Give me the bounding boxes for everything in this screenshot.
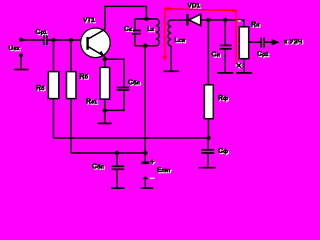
- capacitor Сбп: [112, 166, 125, 188]
- wire: Сбл bottom branch: [105, 91, 124, 111]
- red annotation: right vertical (to Rн ground): [232, 8, 237, 12]
- wire: Сбл top branch: [105, 59, 124, 87]
- ground (Rн): [236, 72, 252, 74]
- label Uвх: [9, 45, 22, 53]
- wire: supply feed (tank bottom to rail2): [144, 46, 146, 153]
- svg-text:Сн: Сн: [212, 52, 220, 59]
- ground (emitter): [98, 122, 113, 124]
- resistor Rн: [239, 27, 248, 59]
- label Rэ1: [86, 99, 98, 107]
- label Rб: [36, 85, 46, 93]
- svg-text:Rб: Rб: [36, 85, 45, 92]
- red annotation: horizontal arrow over VD1: [164, 7, 236, 11]
- node: tank bottom: [143, 44, 147, 48]
- label Сбл: [128, 80, 141, 88]
- svg-text:VD1: VD1: [188, 3, 201, 10]
- node: detector / Rф: [206, 18, 210, 22]
- label Сбп: [92, 164, 105, 172]
- svg-text:Rн: Rн: [251, 22, 259, 29]
- wire: Rн bottom lead: [243, 59, 245, 73]
- svg-text:Lк: Lк: [147, 26, 154, 33]
- svg-text:Rэ1: Rэ1: [86, 99, 97, 106]
- node: Сбп on rail2: [115, 151, 119, 166]
- label Rн: [251, 22, 260, 30]
- resistor R2 (Rб2): [67, 72, 77, 99]
- svg-text:Lсв: Lсв: [175, 37, 186, 44]
- arrow marker at red path end: [237, 63, 242, 67]
- wire: Cp1 to base: [48, 39, 88, 41]
- input terminal (bottom): [19, 53, 23, 69]
- label к УЗЧ: [284, 39, 304, 47]
- resistor Rф: [204, 85, 213, 119]
- svg-text:Епит: Епит: [157, 167, 171, 174]
- label Lк: [147, 26, 155, 34]
- wire: collector to top rail to tank top: [105, 6, 147, 29]
- svg-text:Сбп: Сбп: [92, 164, 104, 171]
- capacitor Ср2: [261, 38, 264, 48]
- label Сн: [212, 52, 221, 60]
- label Cp1: [36, 29, 48, 37]
- diode VD1: [186, 14, 201, 26]
- svg-text:к УЗЧ: к УЗЧ: [284, 39, 303, 46]
- svg-text:Rб: Rб: [80, 74, 89, 81]
- capacitor Ск: [132, 19, 141, 46]
- node: emitter bottom: [103, 99, 107, 123]
- svg-text:VT1: VT1: [83, 17, 95, 24]
- inductor Lсв: [168, 20, 171, 46]
- label Ск: [124, 26, 133, 34]
- svg-text:Ск: Ск: [124, 26, 132, 33]
- capacitor Cp1: [44, 35, 47, 45]
- wire: Lсв bottom lead: [170, 46, 172, 71]
- node: rail1 / Сф: [206, 136, 210, 140]
- resistor R1 (Rб): [48, 72, 58, 99]
- label Eпит: [157, 167, 172, 175]
- node: Cp1 / R1 junction: [51, 38, 55, 42]
- label VT1: [83, 17, 96, 25]
- label Сф: [218, 148, 229, 156]
- wire: down to Rф: [207, 20, 209, 85]
- capacitor Сф: [201, 138, 214, 168]
- node: battery / rail2: [143, 151, 147, 155]
- wire: to output arrow: [265, 41, 272, 43]
- ground (Сн): [217, 72, 233, 74]
- node: R2 junction: [69, 38, 73, 42]
- label VD1: [188, 3, 202, 11]
- capacitor Сн: [220, 20, 232, 73]
- label Ср2: [257, 51, 269, 59]
- capacitor Сбл: [116, 88, 129, 91]
- wire: R1 top lead: [53, 40, 55, 72]
- wire: tank bottom: [135, 45, 157, 47]
- node: Сн: [223, 18, 227, 22]
- label Lсв: [175, 37, 187, 45]
- ground (input): [14, 69, 29, 71]
- svg-text:Сф: Сф: [218, 148, 228, 155]
- wire: rail2 (to battery +): [71, 152, 145, 154]
- resistor Rэ1: [100, 67, 110, 99]
- wire: tank top: [135, 18, 156, 20]
- node: emitter: [103, 57, 107, 68]
- svg-text:Uвх: Uвх: [9, 45, 21, 52]
- wire: diode to Rн top: [201, 20, 244, 27]
- ground (Сбп): [111, 187, 125, 189]
- ground (Сф): [199, 167, 216, 169]
- red annotation: left vertical arrow (into tank): [162, 9, 167, 61]
- wire: Rф bottom to rail1: [208, 119, 210, 138]
- wire: R2 bottom lead to rail2: [70, 99, 72, 153]
- wire: input to Cp1: [21, 39, 43, 41]
- minus mark (detector output polarity): [238, 20, 241, 22]
- svg-text:+: +: [150, 157, 155, 166]
- input terminal (top): [19, 38, 23, 42]
- wire: Lсв top to diode: [171, 19, 186, 21]
- svg-text:Сбл: Сбл: [128, 80, 140, 87]
- ground (battery): [141, 187, 154, 189]
- wire: rail1 (to Rф bottom): [54, 137, 209, 139]
- ground (Lсв): [164, 70, 180, 72]
- wire: R1 bottom lead to rail1: [53, 99, 55, 138]
- label Rф: [218, 95, 229, 103]
- transistor VT1: [81, 28, 111, 58]
- svg-text:Ср1: Ср1: [36, 29, 47, 36]
- inductor Lк: [156, 19, 159, 46]
- battery GB (Eпит): [142, 153, 150, 188]
- svg-text:Rф: Rф: [218, 95, 228, 102]
- wire: R2 top lead: [70, 40, 72, 72]
- battery - sign: [150, 177, 155, 179]
- svg-text:Ср2: Ср2: [257, 51, 268, 58]
- node: tank top: [144, 17, 148, 21]
- output arrow: [272, 39, 280, 46]
- label Rб2: [80, 74, 90, 82]
- wire: output tap: [249, 41, 261, 43]
- battery + sign: [150, 157, 156, 167]
